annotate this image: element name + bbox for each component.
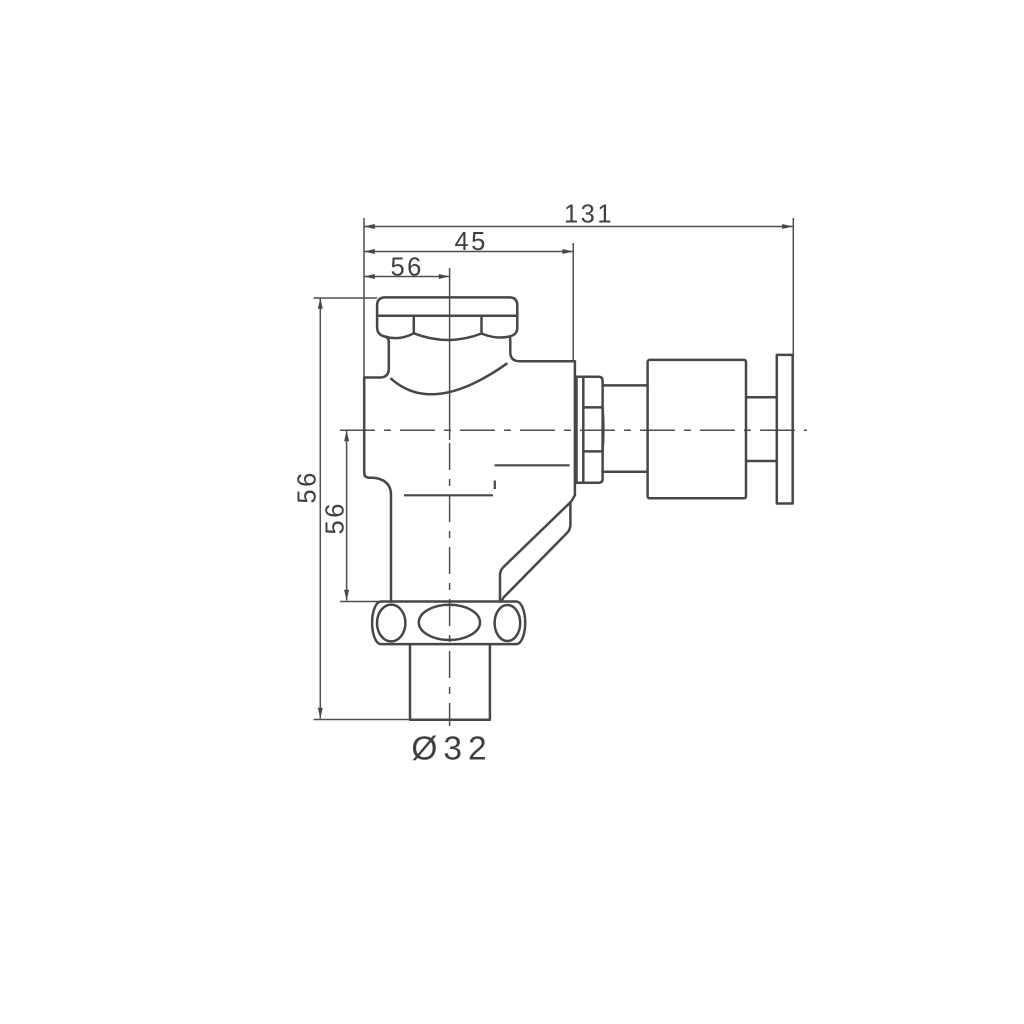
body interior smile arc: [391, 364, 506, 394]
arrow outer56 up: [318, 298, 323, 309]
arrow inner56 up: [344, 430, 349, 441]
svg-text:56: 56: [391, 253, 424, 281]
arrow 131 left: [364, 224, 375, 229]
arrow 56 top right: [439, 274, 450, 279]
outlet pipe: [410, 644, 490, 720]
internal step line upper: [495, 464, 570, 466]
arrow outer56 down: [318, 708, 323, 719]
dim line 131: [364, 226, 793, 228]
svg-text:Ø32: Ø32: [411, 731, 492, 768]
cap divider left: [413, 316, 416, 333]
hex nut flat line top: [583, 406, 602, 409]
left outer 56 dim line: [319, 298, 321, 719]
shaft 2 top: [746, 396, 777, 399]
arrow 45 left: [364, 249, 375, 254]
nut ellipse left: [377, 605, 405, 642]
dim line 56 top: [364, 276, 450, 278]
inner 56 extension tick bottom: [340, 601, 379, 603]
flange: [777, 355, 793, 504]
dim line 45: [364, 251, 573, 253]
spout band right edge: [502, 503, 570, 601]
svg-text:45: 45: [455, 228, 488, 256]
big block: [648, 360, 746, 498]
horizontal centerline dashed: [340, 429, 807, 431]
body left outline (neck to nut): [364, 337, 391, 602]
nut ellipse center: [419, 605, 480, 640]
hex nut flat line bottom: [583, 450, 602, 453]
cap outline: [377, 297, 517, 340]
left outer 56 extension tick bottom: [314, 719, 410, 721]
shaft 1 bottom: [603, 471, 648, 474]
internal step tick: [494, 481, 496, 490]
left outer 56 extension tick top: [314, 297, 378, 299]
arrow 131 right: [782, 224, 793, 229]
bottom nut stadium: [372, 602, 525, 645]
extension line 45: [572, 243, 574, 362]
arrow 56 top left: [364, 274, 375, 279]
shaft 1 top: [603, 384, 648, 387]
nut ellipse right: [495, 605, 521, 641]
shaft 2 bottom: [746, 460, 777, 463]
cap divider right: [480, 316, 483, 333]
dimension texts: [294, 201, 615, 535]
arrow inner56 down: [344, 590, 349, 601]
hex nut middle bulge: [601, 407, 604, 451]
body right outline (neck, shoulder, edge, chamfer, diagonal): [500, 337, 575, 602]
extension line left (x=364 above body): [363, 218, 365, 378]
vertical centerline dashed: [449, 443, 451, 726]
extension/centerline solid part x=449.6: [449, 268, 451, 440]
hex nut face line: [582, 377, 585, 483]
inner 56 dim line: [346, 430, 348, 600]
svg-text:56: 56: [321, 501, 349, 534]
svg-text:131: 131: [564, 201, 614, 229]
arrow 45 right: [562, 249, 573, 254]
internal step line lower: [404, 494, 493, 496]
svg-text:56: 56: [294, 470, 322, 503]
hex nut outline: [577, 377, 603, 483]
extension line right of 131 (flange right edge): [792, 218, 794, 356]
cap horizontal line: [377, 315, 517, 318]
